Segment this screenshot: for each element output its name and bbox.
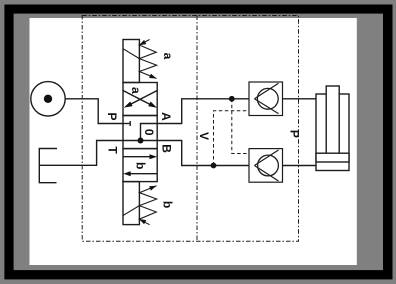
svg-text:a: a: [129, 87, 143, 94]
svg-text:0: 0: [142, 129, 156, 136]
wire tank to valve T: [39, 141, 123, 166]
box a crossed arrow 2: [123, 91, 153, 107]
upper check valve U1: [249, 82, 283, 116]
valve spring compartment top box: [123, 40, 139, 83]
valve position box b: [123, 149, 157, 182]
cylinder piston: [316, 153, 349, 162]
spring b adjust arrow: [123, 206, 139, 216]
svg-text:a: a: [161, 53, 175, 60]
box b arrow right: [123, 156, 151, 158]
svg-text:T: T: [105, 146, 119, 154]
spring a zigzag: [139, 40, 157, 79]
box 0 junction dot: [138, 138, 144, 144]
pilot line from A to lower check valve: [232, 99, 249, 154]
wire pump to valve P: [65, 99, 123, 124]
tank: [39, 149, 57, 183]
pilot line from B to upper check valve: [214, 111, 250, 166]
spring a adjust arrow: [123, 49, 139, 59]
junction node on B line: [211, 163, 217, 169]
box a crossed arrow 1: [127, 91, 157, 107]
box 0 T-B through line: [123, 140, 157, 142]
svg-text:P: P: [287, 130, 301, 138]
svg-text:P: P: [105, 112, 119, 120]
valve spring compartment bottom box: [123, 182, 139, 225]
svg-text:B: B: [160, 144, 174, 153]
valve position box 0 (centre): [123, 116, 157, 149]
cylinder barrel: [316, 94, 349, 171]
valve position box a: [123, 83, 157, 116]
box 0 A to T link: [141, 124, 158, 141]
lower check valve U2: [249, 149, 283, 183]
wire lower check valve to cylinder: [283, 165, 317, 167]
box 0 blocked P stub: [123, 123, 130, 125]
junction node on A line: [229, 96, 235, 102]
pump (pressure source): [31, 82, 65, 116]
svg-text:V: V: [197, 132, 211, 140]
drawing sheet: [30, 18, 357, 265]
wire upper check valve to cylinder: [283, 98, 317, 100]
dash-dot divider line: [196, 16, 198, 242]
svg-text:b: b: [160, 201, 174, 208]
svg-text:b: b: [133, 162, 147, 169]
wire valve B to lower check valve: [157, 141, 249, 166]
wire valve A to upper check valve: [157, 99, 249, 124]
spring b zigzag: [139, 186, 157, 225]
cylinder rod: [326, 86, 339, 153]
dash-dot boundary box (valve + lock section): [82, 16, 298, 242]
svg-text:A: A: [159, 112, 173, 121]
box b arrow left: [129, 173, 157, 175]
